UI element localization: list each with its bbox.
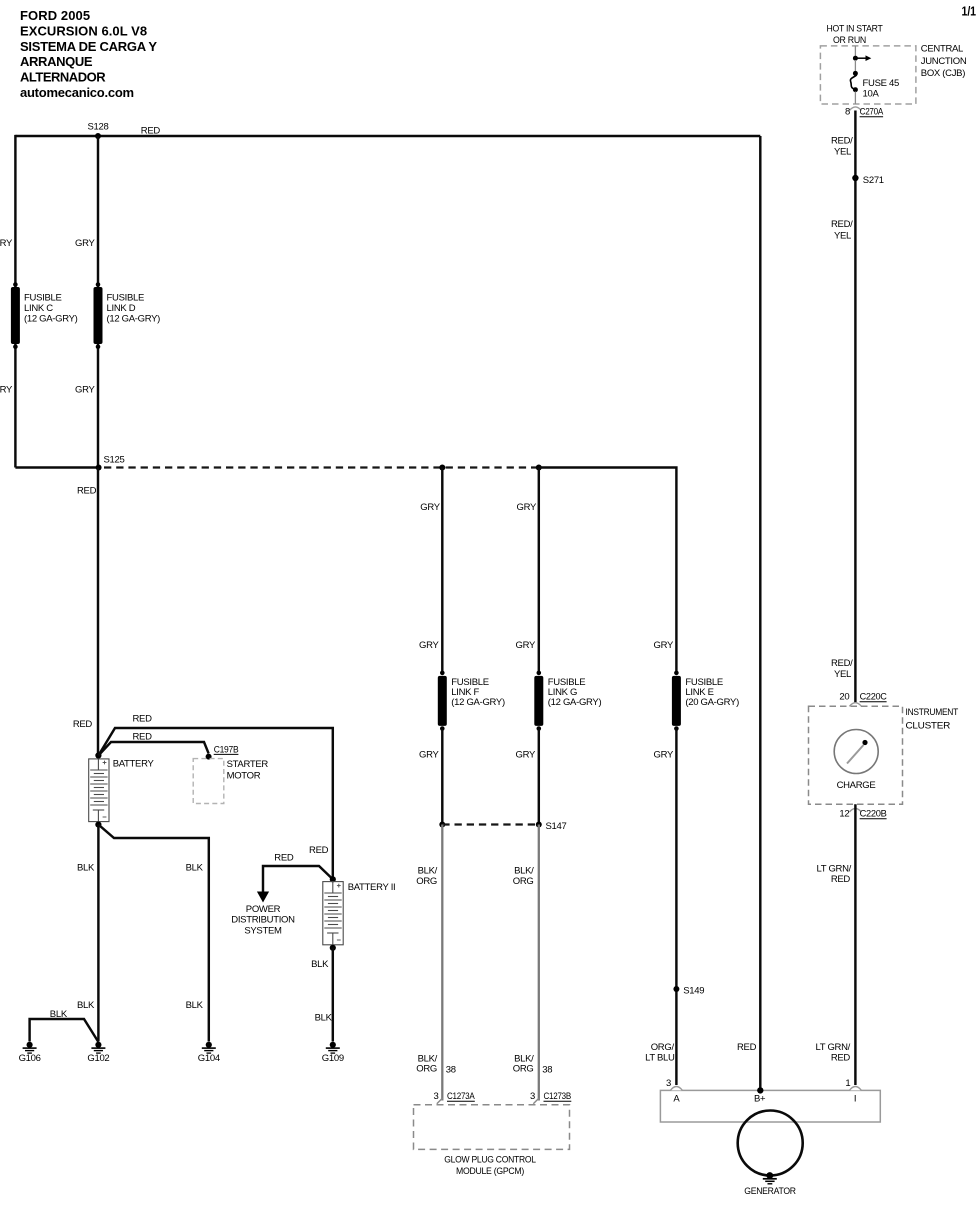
svg-text:S128: S128 bbox=[88, 121, 109, 132]
svg-text:FORD 2005: FORD 2005 bbox=[20, 8, 90, 23]
battery symbol bbox=[89, 759, 109, 822]
svg-text:38: 38 bbox=[542, 1065, 552, 1076]
connector C220C bbox=[839, 692, 887, 707]
node battery negative bbox=[95, 822, 101, 828]
starter motor box bbox=[193, 759, 224, 804]
svg-text:RED: RED bbox=[274, 853, 294, 864]
svg-text:FUSIBLE: FUSIBLE bbox=[107, 293, 145, 304]
fusible link D bbox=[94, 282, 103, 349]
generator body circle bbox=[738, 1111, 803, 1176]
svg-text:EXCURSION 6.0L V8: EXCURSION 6.0L V8 bbox=[20, 23, 147, 38]
svg-text:BLK: BLK bbox=[315, 1013, 333, 1024]
svg-text:G102: G102 bbox=[87, 1053, 109, 1064]
title block bbox=[20, 8, 157, 100]
wire GRY link G branch upper bbox=[538, 468, 540, 673]
svg-text:RED: RED bbox=[737, 1042, 757, 1053]
svg-text:G109: G109 bbox=[322, 1053, 344, 1064]
svg-text:C220C: C220C bbox=[860, 692, 887, 703]
label LT GRN/RED lower bbox=[816, 1042, 851, 1064]
svg-text:GRY: GRY bbox=[653, 750, 673, 761]
svg-text:FUSIBLE: FUSIBLE bbox=[24, 293, 62, 304]
wire RED S125 to battery bbox=[97, 468, 99, 756]
node battery II negative bbox=[330, 945, 336, 951]
svg-text:GRY: GRY bbox=[515, 640, 535, 651]
svg-text:POWER: POWER bbox=[246, 904, 281, 915]
svg-text:BLK: BLK bbox=[186, 863, 204, 874]
svg-text:BLK: BLK bbox=[311, 959, 329, 970]
svg-text:HOT IN START: HOT IN START bbox=[827, 24, 883, 35]
svg-text:RED: RED bbox=[133, 714, 153, 725]
node S147 bbox=[439, 821, 566, 832]
wire RED top bus to generator B+ bbox=[759, 136, 761, 1090]
svg-text:C270A: C270A bbox=[860, 107, 884, 118]
svg-text:ALTERNADOR: ALTERNADOR bbox=[20, 70, 106, 85]
node S128 bbox=[88, 121, 109, 139]
svg-text:OR RUN: OR RUN bbox=[833, 35, 866, 46]
label FUSIBLE LINK C (12 GA-GRY) bbox=[24, 293, 78, 325]
svg-text:3: 3 bbox=[530, 1091, 535, 1102]
generator ground bbox=[763, 1172, 777, 1184]
label INSTRUMENT CLUSTER bbox=[906, 707, 959, 732]
ground G102 bbox=[87, 1042, 109, 1064]
svg-text:INSTRUMENT: INSTRUMENT bbox=[906, 707, 959, 718]
svg-text:1/1: 1/1 bbox=[962, 4, 977, 19]
label FUSIBLE LINK D (12 GA-GRY) bbox=[107, 293, 161, 325]
svg-text:BOX (CJB): BOX (CJB) bbox=[921, 68, 965, 79]
svg-text:GLOW PLUG CONTROL: GLOW PLUG CONTROL bbox=[444, 1155, 536, 1166]
label LT GRN/RED upper bbox=[817, 864, 852, 886]
svg-text:B+: B+ bbox=[754, 1094, 766, 1105]
node battery positive bbox=[95, 752, 101, 758]
generator box bbox=[660, 1090, 880, 1122]
label ORG/LT BLU bbox=[645, 1042, 675, 1064]
wire S125 left horizontal bbox=[15, 466, 98, 468]
junction dot link G branch bbox=[536, 465, 542, 471]
svg-text:BLK: BLK bbox=[50, 1009, 68, 1020]
glow plug control module (GPCM) box bbox=[414, 1105, 570, 1150]
connector dome terminal I bbox=[849, 1087, 861, 1091]
svg-text:RED: RED bbox=[141, 126, 161, 137]
wire BLK battery to G104 bbox=[98, 825, 208, 1042]
label FUSE 45 10A bbox=[863, 78, 899, 100]
svg-text:YEL: YEL bbox=[834, 669, 851, 680]
battery II symbol bbox=[323, 882, 343, 945]
svg-text:FUSE 45: FUSE 45 bbox=[863, 78, 899, 89]
fusible link F bbox=[438, 671, 447, 731]
wire BLK battery to G102 bbox=[97, 825, 99, 1042]
svg-text:MODULE (GPCM): MODULE (GPCM) bbox=[456, 1166, 524, 1177]
svg-text:MOTOR: MOTOR bbox=[227, 771, 261, 782]
svg-text:C1273A: C1273A bbox=[447, 1091, 475, 1102]
label HOT IN START OR RUN bbox=[827, 24, 883, 47]
wire RED/YEL CJB to instrument cluster bbox=[854, 111, 856, 707]
label RED/YEL lower bbox=[831, 658, 853, 680]
svg-text:LT BLU: LT BLU bbox=[645, 1053, 675, 1064]
node generator B+ bbox=[757, 1087, 763, 1093]
svg-text:I: I bbox=[854, 1094, 856, 1105]
CJB bus tap dot and arrow bbox=[853, 55, 871, 61]
svg-text:G104: G104 bbox=[198, 1053, 220, 1064]
label FUSIBLE LINK F (12 GA-GRY) bbox=[451, 677, 505, 708]
svg-text:BLK: BLK bbox=[77, 863, 95, 874]
CJB fuse output wire bbox=[854, 92, 856, 104]
pin 3 connector C1273B bbox=[530, 1091, 571, 1104]
svg-text:GRY: GRY bbox=[419, 750, 439, 761]
svg-text:BLK/: BLK/ bbox=[418, 866, 438, 877]
svg-text:GRY: GRY bbox=[516, 502, 536, 513]
svg-text:10A: 10A bbox=[863, 89, 880, 100]
svg-text:BLK: BLK bbox=[77, 1000, 95, 1011]
instrument cluster box bbox=[809, 706, 903, 804]
label GLOW PLUG CONTROL MODULE (GPCM) bbox=[444, 1155, 536, 1178]
svg-text:C1273B: C1273B bbox=[544, 1091, 572, 1102]
svg-text:8: 8 bbox=[845, 107, 850, 118]
wire S147 dashed splice bbox=[442, 823, 539, 825]
label FUSIBLE LINK G (12 GA-GRY) bbox=[548, 677, 602, 708]
label FUSIBLE LINK E (20 GA-GRY) bbox=[685, 677, 739, 708]
svg-text:BLK/: BLK/ bbox=[514, 866, 534, 877]
wire BLK G106 jumper bbox=[30, 1019, 99, 1042]
svg-text:3: 3 bbox=[434, 1091, 439, 1102]
svg-text:S125: S125 bbox=[104, 455, 125, 466]
svg-text:G106: G106 bbox=[19, 1053, 41, 1064]
svg-text:automecanico.com: automecanico.com bbox=[20, 85, 134, 100]
svg-text:BLK: BLK bbox=[186, 1000, 204, 1011]
svg-text:ORG: ORG bbox=[416, 1064, 437, 1075]
fuse 45 10A bbox=[850, 71, 858, 92]
node battery II positive bbox=[330, 876, 336, 882]
svg-text:RED/: RED/ bbox=[831, 658, 853, 669]
svg-text:GENERATOR: GENERATOR bbox=[744, 1186, 796, 1197]
svg-text:20: 20 bbox=[839, 692, 849, 703]
wire BLK/ORG S147 to C1273A bbox=[441, 825, 443, 1101]
charge indicator gauge bbox=[834, 730, 878, 774]
wire BLK battery II to G109 bbox=[332, 948, 334, 1042]
node S149 bbox=[673, 986, 704, 997]
label RED/YEL upper bbox=[831, 136, 853, 158]
wire GRY link F branch upper bbox=[441, 468, 443, 673]
svg-text:C220B: C220B bbox=[860, 809, 887, 820]
junction dot link F branch bbox=[439, 465, 445, 471]
wire RED top bus from S128 to B+ branch bbox=[15, 135, 760, 137]
svg-text:12: 12 bbox=[839, 809, 849, 820]
node C197B bbox=[206, 744, 239, 759]
svg-text:GRY: GRY bbox=[653, 640, 673, 651]
label BLK/ORG upper right bbox=[513, 866, 534, 888]
pin 3 connector C1273A bbox=[434, 1091, 476, 1104]
svg-text:S147: S147 bbox=[546, 821, 567, 832]
svg-text:RED: RED bbox=[831, 1053, 851, 1064]
svg-text:CHARGE: CHARGE bbox=[837, 780, 876, 791]
label RED/YEL middle bbox=[831, 219, 853, 242]
label CENTRAL JUNCTION BOX (CJB) bbox=[921, 44, 967, 80]
wire RED battery to starter C197B bbox=[98, 742, 208, 756]
svg-text:BATTERY: BATTERY bbox=[113, 759, 155, 770]
svg-text:(12 GA-GRY): (12 GA-GRY) bbox=[24, 314, 78, 325]
wire GRY left branch (fusible link C) bbox=[14, 135, 16, 468]
svg-text:YEL: YEL bbox=[834, 147, 851, 158]
svg-text:RED: RED bbox=[831, 874, 851, 885]
svg-text:GRY: GRY bbox=[420, 502, 440, 513]
svg-text:RED/: RED/ bbox=[831, 136, 853, 147]
svg-text:S149: S149 bbox=[683, 986, 704, 997]
connector C270A bbox=[845, 107, 884, 118]
fusible link C bbox=[11, 282, 20, 349]
svg-text:GRY: GRY bbox=[0, 385, 13, 396]
ground G104 bbox=[198, 1042, 220, 1064]
svg-text:ORG: ORG bbox=[416, 876, 437, 887]
svg-text:(12 GA-GRY): (12 GA-GRY) bbox=[548, 697, 602, 708]
ground G106 bbox=[19, 1042, 41, 1064]
svg-text:DISTRIBUTION: DISTRIBUTION bbox=[231, 915, 295, 926]
svg-text:BATTERY II: BATTERY II bbox=[348, 882, 396, 893]
label BLK/ORG lower right bbox=[513, 1054, 534, 1075]
label BLK/ORG lower left bbox=[416, 1054, 437, 1075]
svg-text:CLUSTER: CLUSTER bbox=[906, 721, 951, 732]
svg-text:LT GRN/: LT GRN/ bbox=[817, 864, 852, 875]
svg-text:GRY: GRY bbox=[419, 640, 439, 651]
wire LT GRN/RED cluster to generator I bbox=[854, 804, 856, 1085]
svg-text:ORG: ORG bbox=[513, 876, 534, 887]
central junction box (CJB) bbox=[820, 46, 916, 104]
wire GRY S128 branch (fusible link D) bbox=[97, 136, 99, 468]
svg-text:LINK C: LINK C bbox=[24, 303, 53, 314]
svg-text:1: 1 bbox=[845, 1078, 850, 1089]
wire solid S125 bus to link E branch bbox=[539, 468, 677, 673]
svg-text:C197B: C197B bbox=[214, 744, 239, 755]
wire GRY link F to S147 bbox=[441, 729, 443, 825]
node S271 bbox=[852, 175, 884, 186]
connector dome terminal A bbox=[670, 1087, 682, 1091]
ground G109 bbox=[322, 1042, 344, 1064]
CJB wire tap to fuse bbox=[854, 60, 856, 72]
svg-text:GRY: GRY bbox=[0, 238, 13, 249]
svg-text:RED: RED bbox=[73, 719, 93, 730]
svg-text:ORG: ORG bbox=[513, 1064, 534, 1075]
svg-text:LT GRN/: LT GRN/ bbox=[816, 1042, 851, 1053]
label POWER DISTRIBUTION SYSTEM bbox=[231, 904, 295, 937]
svg-text:ARRANQUE: ARRANQUE bbox=[20, 54, 93, 69]
fusible link E bbox=[672, 671, 681, 731]
svg-text:(12 GA-GRY): (12 GA-GRY) bbox=[451, 697, 505, 708]
wire BLK/ORG S147 to C1273B bbox=[538, 825, 540, 1101]
svg-text:SYSTEM: SYSTEM bbox=[244, 925, 282, 936]
svg-text:RED: RED bbox=[309, 845, 329, 856]
svg-text:YEL: YEL bbox=[834, 231, 851, 242]
connector C220B bbox=[839, 808, 886, 819]
svg-text:A: A bbox=[673, 1094, 680, 1105]
fusible link G bbox=[534, 671, 543, 731]
wire ORG/LT BLU link E to generator A bbox=[675, 729, 677, 1086]
svg-text:38: 38 bbox=[446, 1065, 456, 1076]
wire GRY link G to S147 bbox=[538, 729, 540, 825]
svg-text:GRY: GRY bbox=[515, 750, 535, 761]
svg-text:(20 GA-GRY): (20 GA-GRY) bbox=[685, 697, 739, 708]
svg-text:S271: S271 bbox=[863, 175, 884, 186]
svg-text:SISTEMA DE CARGA Y: SISTEMA DE CARGA Y bbox=[20, 39, 157, 54]
wire RED battery to battery II bbox=[98, 728, 332, 877]
svg-text:RED/: RED/ bbox=[831, 219, 853, 230]
label BLK/ORG upper left bbox=[416, 866, 437, 888]
wire S125 dashed splice bus bbox=[104, 466, 539, 468]
node S125 bbox=[96, 455, 125, 471]
svg-text:GRY: GRY bbox=[75, 238, 95, 249]
svg-text:CENTRAL: CENTRAL bbox=[921, 44, 963, 55]
label STARTER MOTOR bbox=[227, 759, 269, 782]
svg-text:3: 3 bbox=[666, 1078, 671, 1089]
svg-text:(12 GA-GRY): (12 GA-GRY) bbox=[107, 314, 161, 325]
svg-text:ORG/: ORG/ bbox=[651, 1042, 675, 1053]
svg-text:JUNCTION: JUNCTION bbox=[921, 56, 967, 67]
CJB internal feed wire bbox=[854, 46, 856, 57]
power distribution system arrow bbox=[257, 866, 333, 903]
svg-text:LINK D: LINK D bbox=[107, 303, 136, 314]
svg-text:GRY: GRY bbox=[75, 385, 95, 396]
svg-text:RED: RED bbox=[77, 486, 97, 497]
svg-text:STARTER: STARTER bbox=[227, 759, 269, 770]
